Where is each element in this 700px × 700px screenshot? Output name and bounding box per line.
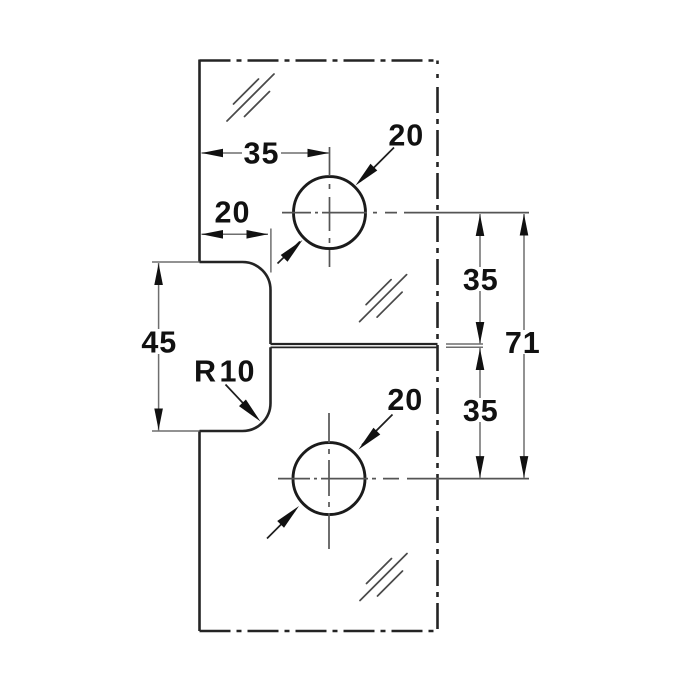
glass hatch bottom [360,554,407,601]
leader arrow to bottom circle (lower left) [267,511,295,539]
svg-text:20: 20 [388,118,424,152]
dimension line 35 (right lower, vertical) [479,348,481,478]
svg-text:10: 10 [220,354,256,388]
svg-text:35: 35 [244,137,280,171]
glass hatch middle [360,275,407,322]
glass hatch top-left [227,74,274,121]
centerline horizontal of top circle, extends right to 71-dim [282,212,529,214]
svg-text:R: R [194,354,217,388]
glass panel left edge upper (solid) [198,60,201,263]
centerline vertical of top circle [329,147,331,267]
slot extension lines (right of panel) [446,344,483,347]
centerline vertical of bottom circle [328,413,330,549]
slot lower line [271,346,438,348]
dimension line 35 (top, horizontal) [202,152,330,154]
leader arrow to bottom circle (upper right) [362,415,393,446]
hole circle top (d20) [294,177,366,249]
svg-text:35: 35 [463,263,499,297]
leader arrow to top circle (upper right) [360,148,394,182]
centerline horizontal of bottom circle, extends right to 71-dim [278,478,529,480]
svg-text:35: 35 [463,394,499,428]
extension line for 45-dim bottom [152,430,200,432]
svg-text:20: 20 [215,196,251,230]
notch lower profile with R10 arc [200,347,271,431]
glass panel outline: top edge (dash-dot) [200,59,438,62]
extension line for 45-dim top [152,261,200,263]
svg-text:71: 71 [505,326,541,360]
svg-text:20: 20 [387,383,423,417]
svg-text:45: 45 [141,326,177,360]
glass panel outline: right edge (dash-dot) [436,61,439,632]
dimension line 35 (right upper, vertical) [479,214,481,344]
notch upper profile with R10 arc [200,262,271,344]
slot upper line [271,343,438,345]
glass panel outline: bottom edge (dash-dot) [200,630,438,633]
dimension line 45 (left, vertical) [158,263,160,431]
leader arrow R10 to arc [226,385,257,418]
dimension line 20 (notch depth, horizontal) [202,233,269,235]
glass panel left edge lower (solid) [198,431,201,631]
dimension line 71 (far right, vertical) [523,214,525,478]
extension line for 20-dim (notch depth) [270,229,272,273]
leader arrow to top circle (lower left) [278,242,301,264]
hole circle bottom (d20) [293,443,365,515]
